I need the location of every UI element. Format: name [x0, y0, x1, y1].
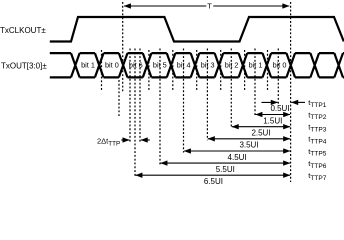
svg-text:1.5UI: 1.5UI — [263, 116, 282, 125]
node m6 5.5UI line — [159, 49, 161, 165]
svg-text:0.5UI: 0.5UI — [270, 104, 289, 113]
bit cell labels — [81, 61, 286, 70]
wire data TxOUT waveform rails and crossings — [50, 53, 344, 77]
svg-text:tTTP3: tTTP3 — [308, 123, 327, 134]
svg-text:bit 1: bit 1 — [81, 61, 95, 70]
arrow 0.5UI outside pair — [262, 101, 306, 103]
node period start line — [122, 2, 124, 92]
labels tTTPn — [308, 98, 327, 182]
svg-text:5.5UI: 5.5UI — [216, 165, 235, 174]
svg-text:bit 0: bit 0 — [105, 61, 119, 70]
svg-text:TxOUT[3:0]±: TxOUT[3:0]± — [1, 62, 47, 71]
svg-text:bit 6: bit 6 — [129, 61, 143, 70]
node m2 1.5UI line — [254, 49, 256, 117]
svg-text:tTTP7: tTTP7 — [308, 171, 327, 182]
arrow 5.5UI — [161, 162, 291, 164]
arrow 2dt pair — [121, 139, 150, 141]
node tolerance right line — [139, 49, 141, 144]
node tolerance left line — [129, 49, 131, 144]
svg-text:bit 0: bit 0 — [273, 61, 287, 70]
svg-text:2.5UI: 2.5UI — [251, 129, 270, 138]
node transition stub line — [118, 80, 120, 116]
arrow 3.5UI — [208, 138, 290, 140]
svg-text:4.5UI: 4.5UI — [228, 153, 247, 162]
node m4 3.5UI line — [206, 49, 208, 141]
svg-text:tTTP5: tTTP5 — [308, 147, 327, 158]
svg-text:T: T — [207, 2, 212, 11]
wire crossing stubs — [102, 50, 268, 91]
svg-text:tTTP1: tTTP1 — [308, 98, 327, 109]
UI value labels — [204, 104, 290, 186]
node m3 2.5UI line — [230, 49, 232, 129]
svg-text:tTTP4: tTTP4 — [308, 135, 327, 146]
node m5 4.5UI line — [183, 49, 185, 153]
wire clock TxCLKOUT waveform — [50, 17, 344, 42]
node m7 6.5UI line — [134, 49, 136, 177]
dashed vertical reference lines — [102, 2, 291, 182]
arrow 4.5UI — [184, 150, 290, 152]
svg-text:2ΔtTTP: 2ΔtTTP — [97, 137, 120, 148]
svg-text:6.5UI: 6.5UI — [204, 177, 223, 186]
svg-text:3.5UI: 3.5UI — [239, 141, 258, 150]
svg-text:tTTP6: tTTP6 — [308, 159, 327, 170]
arrow 2.5UI — [232, 126, 290, 128]
node m1 0.5UI line — [277, 49, 279, 105]
arrow 6.5UI — [136, 174, 291, 176]
arrow 1.5UI — [256, 114, 291, 116]
svg-text:tTTP2: tTTP2 — [308, 110, 327, 121]
arrow period T — [124, 5, 289, 7]
svg-text:TxCLKOUT±: TxCLKOUT± — [0, 26, 46, 35]
node reference line R — [290, 2, 292, 182]
